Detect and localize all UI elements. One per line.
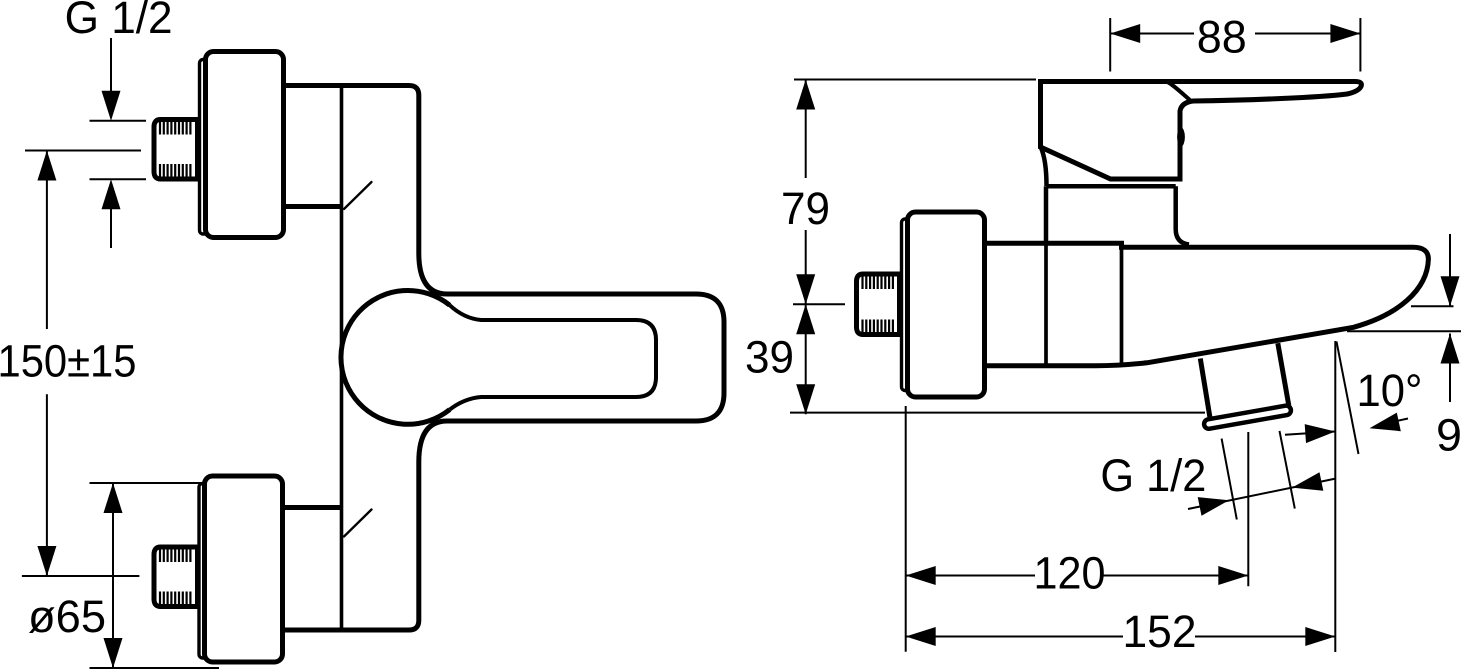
svg-text:88: 88 bbox=[1197, 12, 1247, 63]
escutcheon right view bbox=[908, 212, 985, 397]
thread stub top bbox=[154, 120, 198, 180]
body inner edge bbox=[340, 86, 344, 631]
dim 88 bbox=[1110, 18, 1360, 72]
spout tube edges bbox=[1200, 343, 1289, 418]
escutcheon back plate bottom bbox=[199, 484, 207, 659]
escutcheon back plate top bbox=[200, 60, 208, 235]
svg-text:39: 39 bbox=[745, 332, 794, 383]
svg-text:150±15: 150±15 bbox=[0, 335, 137, 386]
dim 120 bbox=[906, 406, 1249, 652]
svg-text:10°: 10° bbox=[1357, 365, 1423, 416]
handle cap corner line bbox=[1168, 82, 1191, 101]
wire top reference line right view bbox=[794, 79, 1036, 81]
neck bbox=[1046, 186, 1189, 244]
handle lever outline bbox=[419, 253, 724, 462]
dim 10 deg bbox=[1285, 341, 1408, 652]
svg-text:G 1/2: G 1/2 bbox=[65, 0, 173, 43]
body outline side view bbox=[984, 243, 1428, 365]
svg-text:120: 120 bbox=[1034, 548, 1106, 599]
svg-text:ø65: ø65 bbox=[28, 591, 106, 642]
wire connection box bottom bbox=[282, 505, 342, 510]
tick bottom bbox=[344, 510, 372, 537]
body rear vertical edge bbox=[1044, 243, 1048, 365]
svg-text:79: 79 bbox=[781, 183, 830, 234]
dim 79 bbox=[805, 80, 807, 305]
node union centerline right view bbox=[793, 303, 845, 305]
thread stub bottom bbox=[154, 547, 198, 607]
dim 150 plus-minus 15 bbox=[22, 151, 139, 577]
neck left silhouette bbox=[1041, 147, 1047, 186]
handle side view bbox=[1041, 82, 1362, 180]
dim G 1/2 right bbox=[1188, 431, 1336, 520]
svg-text:G 1/2: G 1/2 bbox=[1100, 450, 1206, 501]
handle knob circle bbox=[341, 291, 450, 425]
dim 152 bbox=[906, 636, 1336, 638]
handle front mark bbox=[1177, 127, 1185, 146]
svg-text:152: 152 bbox=[1123, 606, 1197, 657]
handle inner contour bbox=[450, 305, 656, 409]
escutcheon top bbox=[206, 52, 284, 238]
dim 39 bbox=[805, 304, 807, 414]
body outline left view bbox=[282, 86, 419, 631]
escutcheon bottom bbox=[205, 476, 283, 662]
wire bbox=[25, 121, 146, 179]
body front vertical edge bbox=[1120, 247, 1124, 363]
dim 9 bbox=[1347, 234, 1461, 402]
dim G 1/2 arrows left view bbox=[110, 38, 112, 248]
dim diameter 65 bbox=[90, 483, 220, 668]
escutcheon back plate right bbox=[902, 219, 910, 391]
thread stub right bbox=[857, 274, 900, 335]
wire bottom reference line right view bbox=[790, 412, 1205, 414]
wire connection box top bbox=[282, 204, 342, 209]
tick top bbox=[344, 182, 372, 209]
spout outlet flange bbox=[1203, 405, 1291, 430]
svg-text:9: 9 bbox=[1436, 410, 1462, 461]
